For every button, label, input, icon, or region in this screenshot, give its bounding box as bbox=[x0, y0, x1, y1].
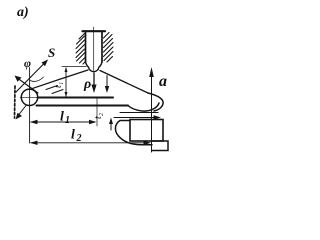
punch top cap bbox=[83, 30, 106, 32]
svg-text:S: S bbox=[48, 45, 55, 60]
second arrow to upper-left bbox=[16, 77, 38, 93]
svg-text:l: l bbox=[71, 128, 75, 143]
punch centerline bbox=[93, 27, 95, 71]
extension line x=97 bbox=[96, 98, 98, 126]
svg-text:t₁: t₁ bbox=[53, 82, 64, 88]
svg-text:ρ: ρ bbox=[83, 77, 91, 92]
right end bowl bbox=[128, 103, 159, 111]
workpiece rounded left end bbox=[21, 89, 37, 105]
strip top edge bbox=[38, 96, 113, 98]
ridge left slope bbox=[32, 70, 89, 89]
fixture hook bbox=[115, 121, 152, 145]
left small dim extension bbox=[62, 66, 86, 68]
fixture big block bbox=[130, 120, 163, 142]
axis / extension line bbox=[29, 68, 31, 144]
left hatching bbox=[76, 34, 86, 65]
lower-left arrow bbox=[17, 106, 26, 118]
right end rounded tip bbox=[148, 93, 163, 111]
right small down arrow bbox=[106, 76, 108, 88]
svg-text:t₂: t₂ bbox=[93, 112, 104, 119]
shading strokes under left slope bbox=[46, 86, 63, 94]
fixture step block bbox=[152, 141, 168, 151]
svg-text:1: 1 bbox=[65, 115, 70, 126]
circle horizontal centerline bbox=[20, 96, 40, 98]
ridge right slope bbox=[100, 71, 148, 94]
svg-text:l: l bbox=[60, 110, 64, 125]
l1 dimension bbox=[31, 121, 94, 123]
force arrow P bbox=[93, 73, 95, 86]
left small dim vertical bbox=[65, 68, 67, 97]
svg-text:а): а) bbox=[17, 5, 29, 20]
strip rest line bbox=[120, 112, 158, 114]
right direction arrow bbox=[114, 117, 155, 119]
svg-text:а: а bbox=[159, 73, 167, 90]
small up arrow t2 bbox=[110, 121, 112, 130]
strip bottom edge bbox=[37, 104, 129, 106]
punch ball tip bbox=[86, 62, 103, 72]
a arrow / extension line bbox=[151, 73, 153, 152]
punch body bbox=[86, 32, 103, 63]
svg-text:2: 2 bbox=[76, 133, 82, 144]
svg-text:φ: φ bbox=[24, 56, 31, 70]
left break edge dashes bbox=[14, 86, 17, 118]
l2 dimension bbox=[31, 142, 149, 144]
right hatching bbox=[104, 33, 114, 63]
S feed arrow bbox=[16, 61, 47, 93]
angle arc bbox=[30, 77, 44, 81]
